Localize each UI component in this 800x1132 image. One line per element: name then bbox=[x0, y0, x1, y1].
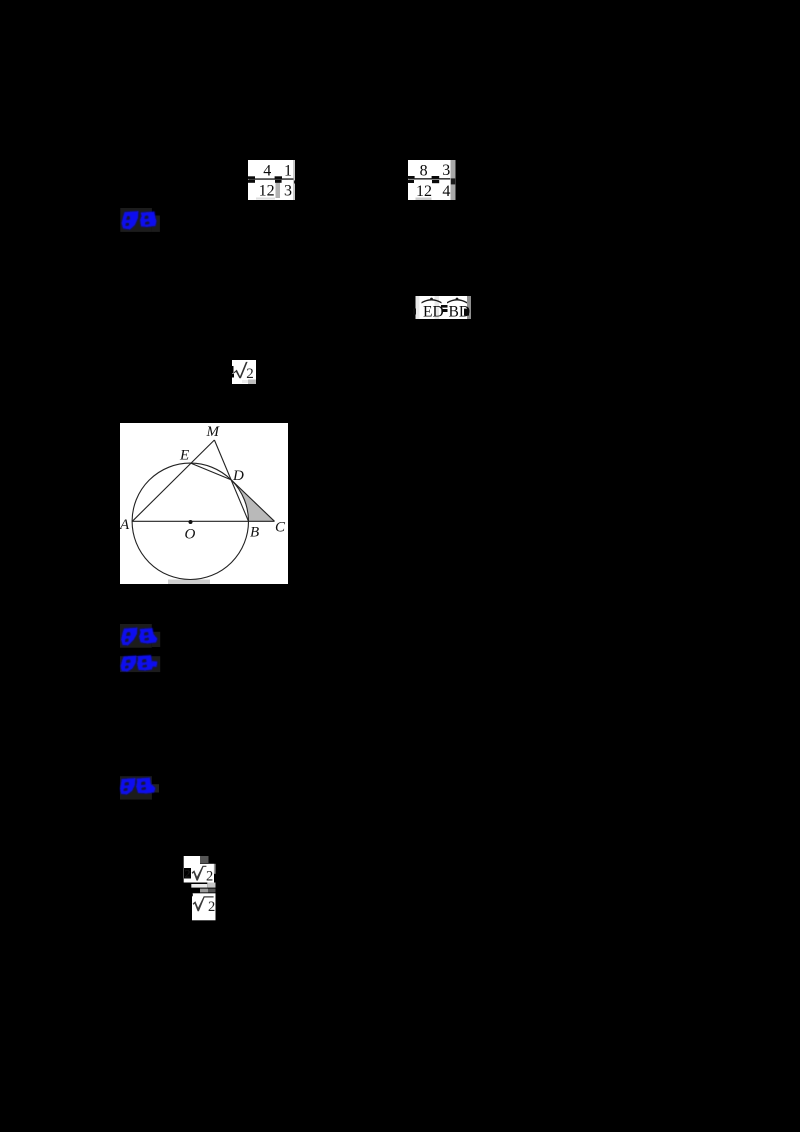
stacked sqrt(2) images bbox=[183, 855, 217, 922]
sqrt 2 glyph (upper) bbox=[192, 866, 207, 881]
svg-text:3: 3 bbox=[284, 183, 292, 200]
fraction image 8/12 = 3/4 bbox=[404, 160, 456, 200]
svg-text:1: 1 bbox=[284, 162, 292, 179]
lower white block with sqrt2 bbox=[192, 893, 216, 920]
sqrt(2) image bbox=[232, 360, 256, 384]
svg-text:2: 2 bbox=[246, 366, 254, 382]
fraction image 4/12 = 1/3 bbox=[248, 160, 295, 200]
shaded segment D-C-B bbox=[231, 480, 275, 522]
svg-text:2: 2 bbox=[185, 867, 191, 881]
svg-text:2: 2 bbox=[206, 869, 213, 885]
svg-text:C: C bbox=[275, 520, 286, 536]
svg-text:ED: ED bbox=[423, 304, 444, 321]
circle bbox=[132, 463, 248, 579]
diameter line A to C bbox=[132, 520, 274, 522]
tangent D to C bbox=[231, 480, 275, 522]
upper left white block bbox=[184, 856, 200, 883]
dark gray corner bbox=[200, 856, 209, 863]
line M to B through D bbox=[214, 440, 248, 521]
svg-text:D: D bbox=[232, 468, 244, 484]
svg-text:8: 8 bbox=[420, 162, 428, 179]
bottom smudge bbox=[168, 580, 210, 585]
svg-text:M: M bbox=[206, 424, 221, 440]
chord E to D bbox=[191, 463, 231, 480]
blue link label (third) bbox=[119, 653, 163, 675]
arc equation image: arc ED = arc BD bbox=[413, 296, 472, 320]
light gray bands bbox=[191, 884, 207, 888]
svg-text:O: O bbox=[185, 527, 196, 543]
svg-text:12: 12 bbox=[259, 183, 275, 200]
center dot O bbox=[189, 520, 193, 524]
blue link label (fourth) bbox=[119, 774, 161, 801]
upper right white block with sqrt2 bbox=[200, 864, 214, 883]
svg-text:4: 4 bbox=[263, 162, 271, 179]
blue link label (second) bbox=[119, 623, 163, 649]
svg-text:2: 2 bbox=[208, 899, 215, 915]
svg-text:B: B bbox=[250, 525, 259, 541]
arc hat over BD bbox=[447, 299, 467, 303]
svg-text:3: 3 bbox=[442, 162, 450, 179]
secant A to M bbox=[132, 440, 214, 521]
geometry figure: circle O with tangent bbox=[120, 423, 288, 584]
black notch with faint 2 bbox=[184, 868, 191, 879]
svg-text:A: A bbox=[120, 517, 130, 533]
sqrt 2 glyph (lower) bbox=[193, 896, 214, 911]
svg-text:12: 12 bbox=[416, 183, 432, 200]
svg-text:4: 4 bbox=[442, 183, 450, 200]
gray squares bbox=[200, 889, 208, 893]
blue link label (answer) bbox=[119, 206, 163, 234]
arc hat over ED bbox=[422, 299, 442, 303]
svg-text:E: E bbox=[179, 448, 189, 464]
labels bbox=[119, 424, 286, 543]
